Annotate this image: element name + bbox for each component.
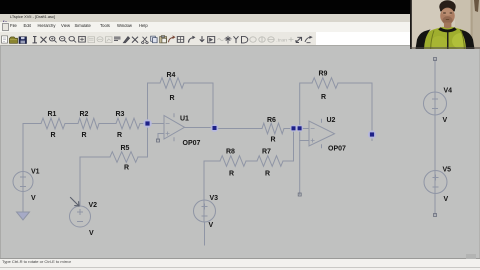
- faint text in black bar: [6, 8, 306, 12]
- svg-text:U1: U1: [180, 116, 189, 123]
- svg-text:V: V: [89, 230, 94, 237]
- wire R5 branch right leg: [138, 124, 148, 158]
- svg-text:R: R: [229, 171, 234, 178]
- wire R1-R2: [65, 123, 78, 125]
- webcam overlay: [410, 0, 480, 49]
- op-amp U2: [309, 119, 335, 147]
- menu bar: [0, 22, 411, 32]
- svg-text:R4: R4: [167, 72, 176, 79]
- wire node A to U1 input: [148, 123, 165, 125]
- U2 inverting input stub: [300, 140, 309, 142]
- svg-text:V3: V3: [210, 195, 219, 202]
- wire V3 to R8 branch: [203, 161, 205, 222]
- right branch wire with V4 V5: [434, 59, 436, 215]
- voltage source V5: [424, 171, 447, 194]
- svg-text:R: R: [170, 95, 175, 102]
- webcam bottom shadow: [410, 47, 480, 50]
- wire R9 feedback branch: [300, 83, 372, 141]
- wire R6 to node C/D: [284, 128, 309, 130]
- svg-text:R: R: [124, 165, 129, 172]
- node D junction: [296, 125, 303, 132]
- svg-text:V4: V4: [444, 88, 453, 95]
- toolbar bottom edge: [0, 45, 480, 46]
- right wire bottom endpoint: [434, 214, 437, 217]
- svg-text:R1: R1: [48, 111, 57, 118]
- resistor R7: [257, 156, 283, 167]
- svg-text:R6: R6: [267, 117, 276, 124]
- svg-text:V: V: [443, 117, 448, 124]
- schematic canvas: [0, 46, 480, 258]
- wire R4 feedback branch: [148, 83, 214, 129]
- resistor R3: [116, 118, 140, 129]
- svg-text:V: V: [31, 195, 36, 202]
- resistor R4: [160, 78, 184, 89]
- op-amp U1: [164, 114, 185, 141]
- svg-text:OP07: OP07: [328, 146, 346, 153]
- wire R8/R7 lower branch: [204, 129, 294, 162]
- dangling wire endpoint: [298, 193, 301, 196]
- svg-text:R: R: [271, 137, 276, 144]
- svg-text:V: V: [209, 222, 214, 229]
- LTspice app icon: [1, 14, 7, 21]
- title bar: [0, 14, 411, 23]
- status bar: [0, 258, 480, 270]
- title text: [10, 15, 55, 19]
- resistor R9: [312, 78, 338, 89]
- wire below V3: [204, 222, 206, 245]
- voltage source V4: [424, 92, 447, 115]
- U1 stub open endpoint: [157, 139, 160, 142]
- resistor R1: [41, 118, 65, 129]
- svg-text:V5: V5: [443, 167, 452, 174]
- wire R3 to node A: [140, 123, 148, 125]
- svg-text:V2: V2: [89, 202, 98, 209]
- menu doc icon: [2, 23, 9, 31]
- voltage source V1: [13, 172, 33, 192]
- svg-text:OP07: OP07: [183, 140, 201, 147]
- wire V1 to ground: [22, 192, 24, 213]
- wire U1 output to node B: [185, 127, 215, 129]
- resize grip: [466, 254, 476, 259]
- resistor R2: [78, 118, 99, 129]
- toolbar: [0, 32, 411, 46]
- resistor R6: [262, 123, 284, 134]
- wire node D down (dangling): [299, 129, 301, 195]
- wire V1 to main line: [22, 124, 24, 192]
- svg-text:V: V: [444, 196, 449, 203]
- U1 noninverting input stub: [158, 134, 164, 141]
- wire R5 left leg down to V2: [80, 157, 110, 206]
- ground: [17, 212, 30, 220]
- svg-text:U2: U2: [327, 117, 336, 124]
- node E junction (R9 right leg end): [368, 130, 376, 138]
- node A junction: [143, 119, 152, 128]
- top black video bar: [0, 0, 480, 14]
- node C junction: [290, 125, 297, 132]
- svg-text:R5: R5: [121, 145, 130, 152]
- svg-text:R9: R9: [319, 71, 328, 78]
- voltage source V2 (being placed): [70, 206, 91, 227]
- voltage source V3: [194, 200, 216, 222]
- wire main input segment: [23, 123, 41, 125]
- svg-text:V1: V1: [31, 169, 40, 176]
- svg-text:R8: R8: [226, 149, 235, 156]
- svg-text:R3: R3: [116, 111, 125, 118]
- svg-text:R7: R7: [262, 149, 271, 156]
- svg-text:R: R: [117, 132, 122, 139]
- svg-text:R: R: [321, 94, 326, 101]
- resistor R8: [220, 156, 246, 167]
- node B junction (U1 output): [211, 124, 219, 132]
- svg-text:R: R: [51, 132, 56, 139]
- right wire top endpoint: [434, 58, 437, 61]
- svg-text:R: R: [82, 132, 87, 139]
- svg-text:R2: R2: [80, 111, 89, 118]
- resistor R5: [110, 152, 138, 163]
- wire R2-R3: [99, 123, 116, 125]
- mouse cursor at V2: [71, 198, 80, 207]
- wire node B to R6: [215, 128, 263, 130]
- svg-text:R: R: [265, 171, 270, 178]
